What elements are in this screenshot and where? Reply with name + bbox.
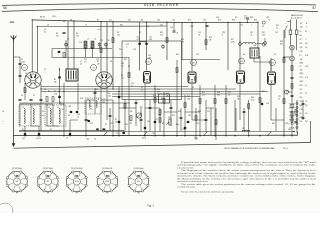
- bus y130 left: [19, 129, 124, 131]
- svg-text:68k: 68k: [217, 95, 220, 97]
- capacitor C28A: [291, 76, 294, 78]
- IFT2 link: [140, 41, 147, 43]
- svg-text:R23: R23: [276, 25, 279, 27]
- svg-text:R14: R14: [209, 37, 212, 39]
- wire x226: [225, 85, 227, 136]
- wire x235: [234, 100, 236, 132]
- svg-text:C21: C21: [207, 111, 210, 113]
- junction: [283, 135, 284, 136]
- capacitor blob: [123, 132, 125, 134]
- svg-text:the blank positions on the swi: the blank positions on the switches are …: [177, 178, 316, 180]
- svg-text:The switch table gives the swi: The switch table gives the switch positi…: [181, 183, 316, 186]
- svg-text:C19: C19: [196, 54, 199, 56]
- osc coil lead: [85, 49, 87, 58]
- svg-text:L5: L5: [85, 25, 87, 27]
- capacitor C4A: [63, 31, 66, 33]
- wire x145: [144, 84, 146, 136]
- svg-text:VOL: VOL: [172, 115, 175, 117]
- capacitor C10: [85, 118, 88, 120]
- capacitor C1B: [19, 74, 22, 76]
- capacitor C8: [58, 96, 60, 98]
- capacitor C6A: [58, 51, 60, 53]
- resistor R17: [225, 99, 227, 104]
- svg-text:1k: 1k: [286, 94, 288, 96]
- junction: [118, 135, 119, 136]
- svg-text:C42: C42: [147, 121, 150, 123]
- wire IFT2 pri a: [139, 22, 141, 70]
- lamp P4: [290, 104, 294, 108]
- svg-text:R6a: R6a: [120, 25, 123, 27]
- svg-text:C40: C40: [102, 102, 105, 104]
- psu wire: [290, 34, 292, 45]
- svg-text:C13: C13: [128, 20, 131, 22]
- svg-text:C23: C23: [266, 17, 269, 19]
- capacitor blob: [96, 128, 98, 130]
- dashed coil box L3 L4: [45, 105, 66, 126]
- resistor R22A: [291, 66, 293, 71]
- svg-text:R29: R29: [178, 111, 181, 113]
- junction: [112, 135, 113, 136]
- svg-text:47k: 47k: [181, 42, 184, 44]
- svg-text:L6: L6: [97, 99, 99, 101]
- svg-text:R13: R13: [181, 39, 184, 41]
- svg-text:C12: C12: [96, 59, 99, 61]
- svg-text:C20: C20: [216, 17, 219, 19]
- tag pin: [296, 114, 298, 116]
- schematic group: [3, 14, 311, 148]
- capacitor blob: [184, 127, 186, 129]
- wire x171: [170, 100, 172, 126]
- wire x31: [30, 104, 32, 126]
- T1 top lead: [257, 44, 259, 48]
- svg-text:S2: S2: [105, 124, 107, 126]
- junction: [257, 22, 258, 23]
- junction: [184, 135, 185, 136]
- svg-text:C16: C16: [157, 20, 160, 22]
- svg-text:S1: S1: [22, 129, 24, 131]
- wire x236: [235, 108, 237, 131]
- svg-text:R17: R17: [231, 39, 234, 41]
- tag strip line: [296, 100, 298, 133]
- stub wire: [119, 107, 136, 109]
- junction: [239, 22, 240, 23]
- svg-text:.01: .01: [228, 95, 230, 97]
- circled designator V3: [191, 60, 197, 66]
- mains lead 1: [290, 20, 292, 31]
- mains link: [287, 21, 291, 23]
- svg-text:L4: L4: [57, 107, 59, 109]
- resistor R4: [63, 53, 65, 58]
- HT bus top: [32, 20, 258, 23]
- svg-text:C14: C14: [172, 20, 175, 22]
- wire x125: [124, 100, 126, 132]
- coil L11: [242, 130, 250, 131]
- svg-text:L30: L30: [22, 138, 25, 140]
- junction: [69, 135, 70, 136]
- svg-text:C4: C4: [21, 95, 23, 97]
- potentiometer R14 tone: [169, 119, 171, 125]
- svg-text:C5: C5: [67, 39, 69, 41]
- svg-text:.0001: .0001: [21, 62, 25, 64]
- svg-text:R27: R27: [140, 107, 143, 109]
- valve (rounded box): [188, 72, 196, 83]
- T1 to V5: [254, 61, 271, 63]
- lamp P3: [285, 90, 289, 94]
- tag pin: [296, 126, 298, 128]
- svg-text:from the rear of the chassis;: from the rear of the chassis; the broken…: [177, 172, 316, 175]
- wire x155: [154, 85, 156, 136]
- wire x41: [40, 84, 42, 132]
- svg-text:15k: 15k: [121, 78, 124, 80]
- capacitor C17: [149, 106, 152, 108]
- stub wire: [145, 107, 160, 109]
- svg-text:220: 220: [262, 35, 265, 37]
- svg-text:R15: R15: [202, 92, 205, 94]
- svg-text:150: 150: [300, 121, 303, 123]
- resistor R1A: [24, 88, 26, 93]
- trimmer C21: [239, 43, 242, 46]
- coil L5: [84, 41, 87, 49]
- svg-text:C33: C33: [300, 109, 303, 111]
- svg-text:L7: L7: [80, 61, 82, 63]
- svg-text:R10: R10: [157, 89, 160, 91]
- svg-text:V3: V3: [192, 87, 194, 89]
- svg-text:C6: C6: [47, 25, 49, 27]
- osc coil lead 2: [92, 49, 94, 58]
- svg-text:C35: C35: [137, 39, 140, 41]
- wire x181: [180, 108, 182, 131]
- capacitor C19B: [187, 121, 189, 123]
- capacitor C15A: [118, 121, 120, 123]
- capacitor C18: [170, 106, 173, 108]
- svg-text:R25: R25: [300, 85, 303, 87]
- lamp tap wire: [283, 56, 290, 58]
- capacitor C7: [58, 76, 60, 78]
- resistor R16A: [215, 120, 217, 125]
- svg-text:V1: V1: [23, 67, 25, 69]
- svg-text:R13: R13: [188, 20, 191, 22]
- right edge vertical: [310, 121, 312, 143]
- stub wire: [101, 99, 113, 101]
- svg-text:50: 50: [25, 76, 27, 78]
- wire trimmer C6: [65, 40, 67, 58]
- vertical x228: [227, 22, 229, 70]
- wire to L7 box 2: [67, 21, 69, 69]
- tag pin: [296, 106, 298, 108]
- resistor R7: [124, 104, 126, 109]
- wire V4 top: [239, 22, 241, 70]
- resistor R3: [52, 97, 54, 102]
- wire x107: [106, 88, 108, 120]
- header rule lower: [2, 8, 318, 11]
- junction: [154, 88, 155, 89]
- svg-text:25: 25: [278, 99, 280, 101]
- capacitor C9: [69, 133, 71, 135]
- svg-text:C44: C44: [188, 115, 191, 117]
- terminal A: [262, 21, 265, 24]
- stub wire: [86, 99, 95, 101]
- svg-text:C7: C7: [44, 69, 46, 71]
- svg-text:C16: C16: [153, 95, 156, 97]
- svg-text:V5 6X5: V5 6X5: [289, 119, 294, 121]
- capacitor C28B: [291, 94, 294, 96]
- svg-text:C14: C14: [95, 89, 98, 91]
- wire V1 top a: [31, 20, 33, 73]
- svg-text:R23: R23: [280, 41, 283, 43]
- resistor R21: [259, 98, 261, 103]
- svg-text:V2: V2: [92, 67, 94, 69]
- junction: [24, 135, 25, 136]
- wire IFT2 pri b: [146, 22, 148, 70]
- svg-text:C13: C13: [133, 49, 136, 51]
- osc bus y57: [52, 57, 129, 59]
- stub x52: [51, 49, 53, 58]
- svg-text:.01: .01: [94, 139, 96, 141]
- capacitor C30: [302, 102, 305, 104]
- svg-text:W1: W1: [119, 49, 122, 51]
- svg-text:M1: M1: [161, 98, 164, 100]
- wire x78: [77, 83, 79, 110]
- IF unit box: [122, 41, 182, 100]
- svg-text:P1 6.3V: P1 6.3V: [289, 123, 296, 125]
- trimmer C11: [98, 43, 101, 46]
- svg-text:47k: 47k: [56, 36, 59, 38]
- svg-text:V3: V3: [147, 61, 149, 63]
- capacitor C12: [94, 91, 97, 93]
- svg-text:.1: .1: [126, 47, 127, 49]
- svg-text:C2: C2: [21, 59, 23, 61]
- svg-text:C8: C8: [44, 89, 46, 91]
- svg-text:R8: R8: [121, 75, 123, 77]
- junction: [227, 22, 228, 23]
- svg-text:R30: R30: [198, 111, 201, 113]
- svg-text:C22: C22: [240, 25, 243, 27]
- resistor R18: [176, 68, 178, 73]
- junction: [73, 21, 74, 22]
- svg-text:L15: L15: [137, 37, 140, 39]
- svg-text:R7: R7: [115, 119, 117, 121]
- svg-text:50: 50: [84, 62, 86, 64]
- junction: [128, 65, 129, 66]
- junction: [63, 91, 64, 92]
- wire x271: [270, 85, 272, 120]
- svg-text:C19: C19: [203, 20, 206, 22]
- stub wire: [206, 107, 214, 109]
- junction: [225, 135, 226, 136]
- junction: [199, 135, 200, 136]
- svg-text:220k: 220k: [187, 99, 191, 101]
- svg-text:C29: C29: [266, 103, 269, 105]
- svg-text:.01: .01: [305, 101, 307, 103]
- svg-text:S5: S5: [300, 23, 302, 25]
- svg-text:V5: V5: [271, 62, 273, 64]
- capacitor C34: [302, 116, 305, 118]
- terminal B: [262, 43, 265, 46]
- stub y59 right: [182, 59, 220, 61]
- wire x185: [184, 95, 186, 136]
- pilot lamp P1: [290, 45, 295, 50]
- svg-text:R7: R7: [130, 123, 132, 125]
- wire V2 top a: [100, 22, 102, 73]
- psu wire 3: [291, 50, 293, 56]
- circled designator V1: [22, 65, 28, 71]
- header rule upper: [2, 3, 316, 5]
- svg-text:C44: C44: [86, 139, 89, 141]
- svg-text:R3 1M: R3 1M: [40, 17, 45, 19]
- svg-text:15k: 15k: [108, 96, 111, 98]
- coil L10: [243, 42, 256, 44]
- svg-text:R4: R4: [56, 33, 58, 35]
- capacitor C23: [243, 110, 246, 112]
- svg-text:.1: .1: [44, 72, 45, 74]
- svg-text:47: 47: [244, 18, 246, 20]
- svg-text:470: 470: [305, 105, 308, 107]
- resistor R15A: [195, 116, 197, 121]
- svg-text:R12: R12: [160, 32, 163, 34]
- stub wire: [20, 103, 53, 105]
- junction: [63, 135, 64, 136]
- valve (rounded box): [237, 71, 245, 83]
- svg-text:56: 56: [3, 6, 7, 10]
- wire x20: [19, 104, 21, 126]
- svg-text:R9: R9: [141, 87, 143, 89]
- svg-text:C9: C9: [66, 138, 68, 140]
- junction: [247, 22, 248, 23]
- valve base V4: [97, 168, 118, 193]
- svg-text:50: 50: [44, 32, 46, 34]
- wire V3 anode: [191, 22, 193, 71]
- svg-text:P1: P1: [300, 55, 302, 57]
- svg-text:C8: C8: [70, 20, 72, 22]
- svg-text:R5: R5: [97, 61, 99, 63]
- stub wire: [31, 125, 39, 127]
- capacitor blob: [144, 127, 146, 129]
- trimmer C37: [162, 45, 165, 48]
- bottom outline: [14, 143, 311, 149]
- svg-text:25: 25: [305, 93, 307, 95]
- wire x53: [52, 104, 54, 126]
- resistor R13: [184, 103, 186, 108]
- svg-text:C13: C13: [110, 123, 113, 125]
- resistor R8: [128, 73, 130, 78]
- circled designator V4: [239, 58, 245, 64]
- svg-text:C12: C12: [84, 59, 87, 61]
- svg-text:R11: R11: [166, 93, 169, 95]
- svg-text:C18: C18: [182, 129, 185, 131]
- wire x292: [291, 100, 293, 136]
- bus y131: [19, 131, 294, 133]
- svg-text:R20: R20: [254, 20, 257, 22]
- dashed coil box L5A L6A: [85, 98, 101, 114]
- valve base V1: [6, 167, 27, 193]
- svg-text:C39: C39: [77, 114, 80, 116]
- resistor R2: [46, 97, 48, 102]
- vertical x167: [166, 22, 168, 60]
- svg-text:R9: R9: [162, 123, 164, 125]
- svg-text:V3 6Q7G (Met): V3 6Q7G (Met): [71, 167, 83, 170]
- svg-text:R21: R21: [262, 32, 265, 34]
- svg-text:C17: C17: [152, 133, 155, 135]
- svg-text:C31: C31: [300, 47, 303, 49]
- svg-text:W1: W1: [130, 111, 133, 113]
- mains lead 2: [296, 20, 298, 31]
- valve (rounded box): [268, 72, 276, 84]
- svg-text:C17: C17: [155, 119, 158, 121]
- svg-text:P2: P2: [300, 66, 302, 68]
- trimmer C12: [105, 43, 108, 46]
- bus y86: [41, 86, 188, 88]
- svg-text:S5: S5: [235, 17, 237, 19]
- svg-text:C5: C5: [33, 95, 35, 97]
- wire x86: [85, 100, 87, 136]
- capacitor C5: [30, 98, 33, 100]
- svg-text:L2: L2: [31, 107, 33, 109]
- valve base V5: [128, 167, 149, 193]
- valve (rounded box): [144, 72, 151, 84]
- junction: [37, 26, 38, 27]
- svg-text:anti-clockwise as shown by the: anti-clockwise as shown by the arrows.: [177, 181, 209, 183]
- svg-text:.01: .01: [305, 47, 307, 49]
- bus y103 left: [19, 102, 130, 104]
- wire x136: [135, 100, 137, 126]
- wire V5 top: [270, 58, 272, 71]
- svg-text:.01: .01: [121, 66, 123, 68]
- junction: [234, 135, 235, 136]
- wire x260: [259, 62, 261, 132]
- svg-text:C32: C32: [300, 51, 303, 53]
- svg-text:V3 6Q7: V3 6Q7: [289, 111, 295, 113]
- svg-text:6K8: 6K8: [16, 181, 19, 183]
- svg-text:R18: R18: [232, 20, 235, 22]
- svg-text:C41: C41: [125, 124, 128, 126]
- stub wire: [271, 119, 284, 121]
- wire x215: [214, 85, 216, 136]
- aerial tap stub: [14, 56, 21, 58]
- svg-text:S1: S1: [50, 129, 52, 131]
- stub wire: [192, 119, 206, 121]
- switch contact: [204, 132, 207, 135]
- svg-text:is less than one ohm.: is less than one ohm.: [177, 167, 194, 169]
- svg-text:If possible this mains test ne: If possible this mains test need be by t…: [181, 161, 316, 164]
- svg-text:.05: .05: [305, 113, 307, 115]
- capacitor C2: [38, 133, 40, 135]
- wire x141: [140, 108, 142, 131]
- resistor R26: [295, 110, 297, 115]
- resistor R25A: [291, 84, 293, 89]
- resistor R25: [291, 118, 293, 123]
- svg-text:C21: C21: [250, 32, 253, 34]
- junction: [291, 135, 292, 136]
- wire x129: [128, 66, 130, 136]
- svg-text:150: 150: [251, 100, 254, 102]
- tag pin: [296, 102, 298, 104]
- svg-text:V1 6K8: V1 6K8: [289, 103, 294, 105]
- svg-text:S2: S2: [68, 115, 70, 117]
- svg-text:R21: R21: [262, 91, 265, 93]
- wire x101: [100, 88, 102, 132]
- pilot lamp P2: [290, 56, 295, 61]
- svg-text:T1: T1: [268, 20, 270, 22]
- svg-text:R19: R19: [237, 96, 240, 98]
- vertical x284: [283, 30, 285, 136]
- svg-text:S1: S1: [60, 102, 62, 104]
- switch contact: [144, 132, 147, 135]
- wire x64: [63, 83, 65, 136]
- resistor R11: [163, 99, 165, 104]
- svg-text:osc: osc: [98, 29, 101, 31]
- valve V1 frequency changer: [25, 72, 41, 88]
- svg-text:R30: R30: [176, 124, 179, 126]
